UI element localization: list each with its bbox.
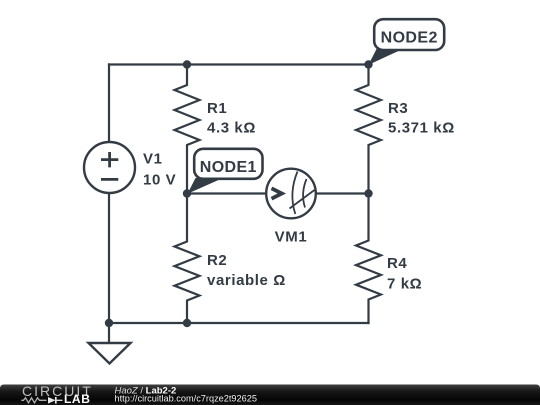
svg-text:7 kΩ: 7 kΩ — [387, 276, 422, 293]
svg-text:R4: R4 — [387, 255, 407, 272]
resistor R2 — [175, 194, 200, 324]
node NODE1 callout — [188, 149, 263, 194]
node junction dots — [105, 60, 373, 327]
voltage source V1 — [84, 142, 135, 193]
logo diode — [48, 397, 63, 404]
svg-text:5.371 kΩ: 5.371 kΩ — [388, 120, 455, 137]
wire middle node1 to voltmeter — [187, 192, 266, 194]
ground — [89, 323, 131, 364]
node NODE2 callout — [369, 19, 445, 65]
wire top rail — [109, 63, 369, 65]
wire left rail lower — [108, 193, 110, 323]
label R4 — [387, 255, 422, 293]
resistor R1 — [175, 65, 200, 194]
svg-text:R2: R2 — [207, 252, 227, 269]
resistor R4 — [356, 194, 381, 324]
wire left rail upper — [108, 65, 110, 143]
svg-text:10 V: 10 V — [143, 171, 176, 188]
svg-text:V1: V1 — [143, 150, 163, 167]
svg-text:4.3 kΩ: 4.3 kΩ — [207, 120, 256, 137]
wire voltmeter to right rail — [316, 192, 369, 194]
footer bar — [0, 385, 540, 405]
svg-text:R3: R3 — [388, 100, 408, 117]
voltmeter VM1 — [266, 169, 316, 219]
label R2 — [207, 252, 286, 289]
svg-text:NODE1: NODE1 — [200, 159, 257, 176]
label R3 — [388, 100, 455, 137]
label R1 — [207, 100, 256, 137]
svg-text:VM1: VM1 — [275, 229, 308, 246]
logo squiggle resistor — [21, 398, 46, 403]
svg-text:variable Ω: variable Ω — [207, 272, 286, 289]
svg-text:NODE2: NODE2 — [381, 30, 438, 47]
svg-text:LAB: LAB — [64, 392, 90, 405]
label V1 — [143, 150, 176, 188]
wire bottom rail — [109, 322, 369, 324]
svg-text:R1: R1 — [207, 100, 227, 117]
svg-text:http://circuitlab.com/c7rqze2t: http://circuitlab.com/c7rqze2t92625 — [115, 394, 257, 404]
resistor R3 — [356, 65, 381, 194]
